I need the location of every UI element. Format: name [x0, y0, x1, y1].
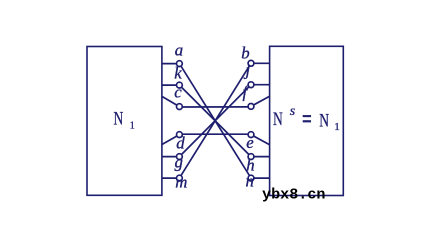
- svg-text:n: n: [246, 172, 254, 191]
- svg-text:b: b: [241, 43, 249, 62]
- wire stub c (slanted): [162, 96, 180, 106]
- wire stub a: [162, 63, 180, 65]
- terminal n: [248, 175, 254, 181]
- label N1 (left box): [114, 109, 135, 132]
- wire c-f (horizontal): [179, 106, 251, 108]
- svg-text:e: e: [246, 133, 254, 152]
- wire stub e (slanted): [251, 135, 270, 145]
- wire stub k: [162, 84, 180, 86]
- terminal c: [177, 104, 183, 110]
- svg-text:a: a: [175, 41, 183, 60]
- wire stub d (slanted): [162, 135, 180, 145]
- svg-text:d: d: [176, 134, 185, 153]
- svg-text:N: N: [319, 110, 329, 131]
- terminal d: [177, 132, 183, 138]
- wire stub h: [251, 156, 270, 158]
- wire m-b (diagonal): [179, 63, 251, 178]
- terminal k: [177, 82, 183, 88]
- wire stub j: [251, 84, 270, 86]
- terminal e: [248, 132, 254, 138]
- svg-text:g: g: [175, 153, 183, 172]
- svg-text:s: s: [290, 104, 296, 119]
- wire d-e (horizontal): [179, 133, 251, 135]
- svg-text:j: j: [244, 61, 251, 80]
- terminal g: [177, 154, 183, 160]
- wire stub n: [251, 177, 270, 179]
- terminal j: [248, 82, 254, 88]
- svg-text:N: N: [273, 109, 283, 130]
- svg-text:m: m: [175, 173, 187, 192]
- wire stub b: [251, 62, 270, 64]
- terminal a: [177, 61, 183, 67]
- svg-text:k: k: [174, 64, 182, 83]
- terminal h: [248, 154, 254, 160]
- wire a-n (diagonal): [179, 64, 251, 179]
- svg-text:N: N: [114, 109, 124, 130]
- wire stub g: [162, 156, 180, 158]
- svg-text:c: c: [174, 82, 182, 101]
- terminal b: [248, 60, 254, 66]
- wire stub f (slanted): [251, 96, 270, 106]
- network N1 box (left): [87, 47, 162, 196]
- terminal f: [248, 104, 254, 110]
- terminal m: [177, 175, 183, 181]
- svg-text:1: 1: [334, 121, 340, 133]
- wire k-h (diagonal): [179, 85, 251, 157]
- network Ns box (right): [270, 46, 344, 195]
- label Ns = N1 (right box): [273, 104, 340, 133]
- wire g-j (diagonal): [179, 85, 251, 157]
- svg-text:1: 1: [130, 121, 135, 132]
- svg-text:ybx8.cn: ybx8.cn: [262, 188, 326, 204]
- wire stub m: [162, 177, 180, 179]
